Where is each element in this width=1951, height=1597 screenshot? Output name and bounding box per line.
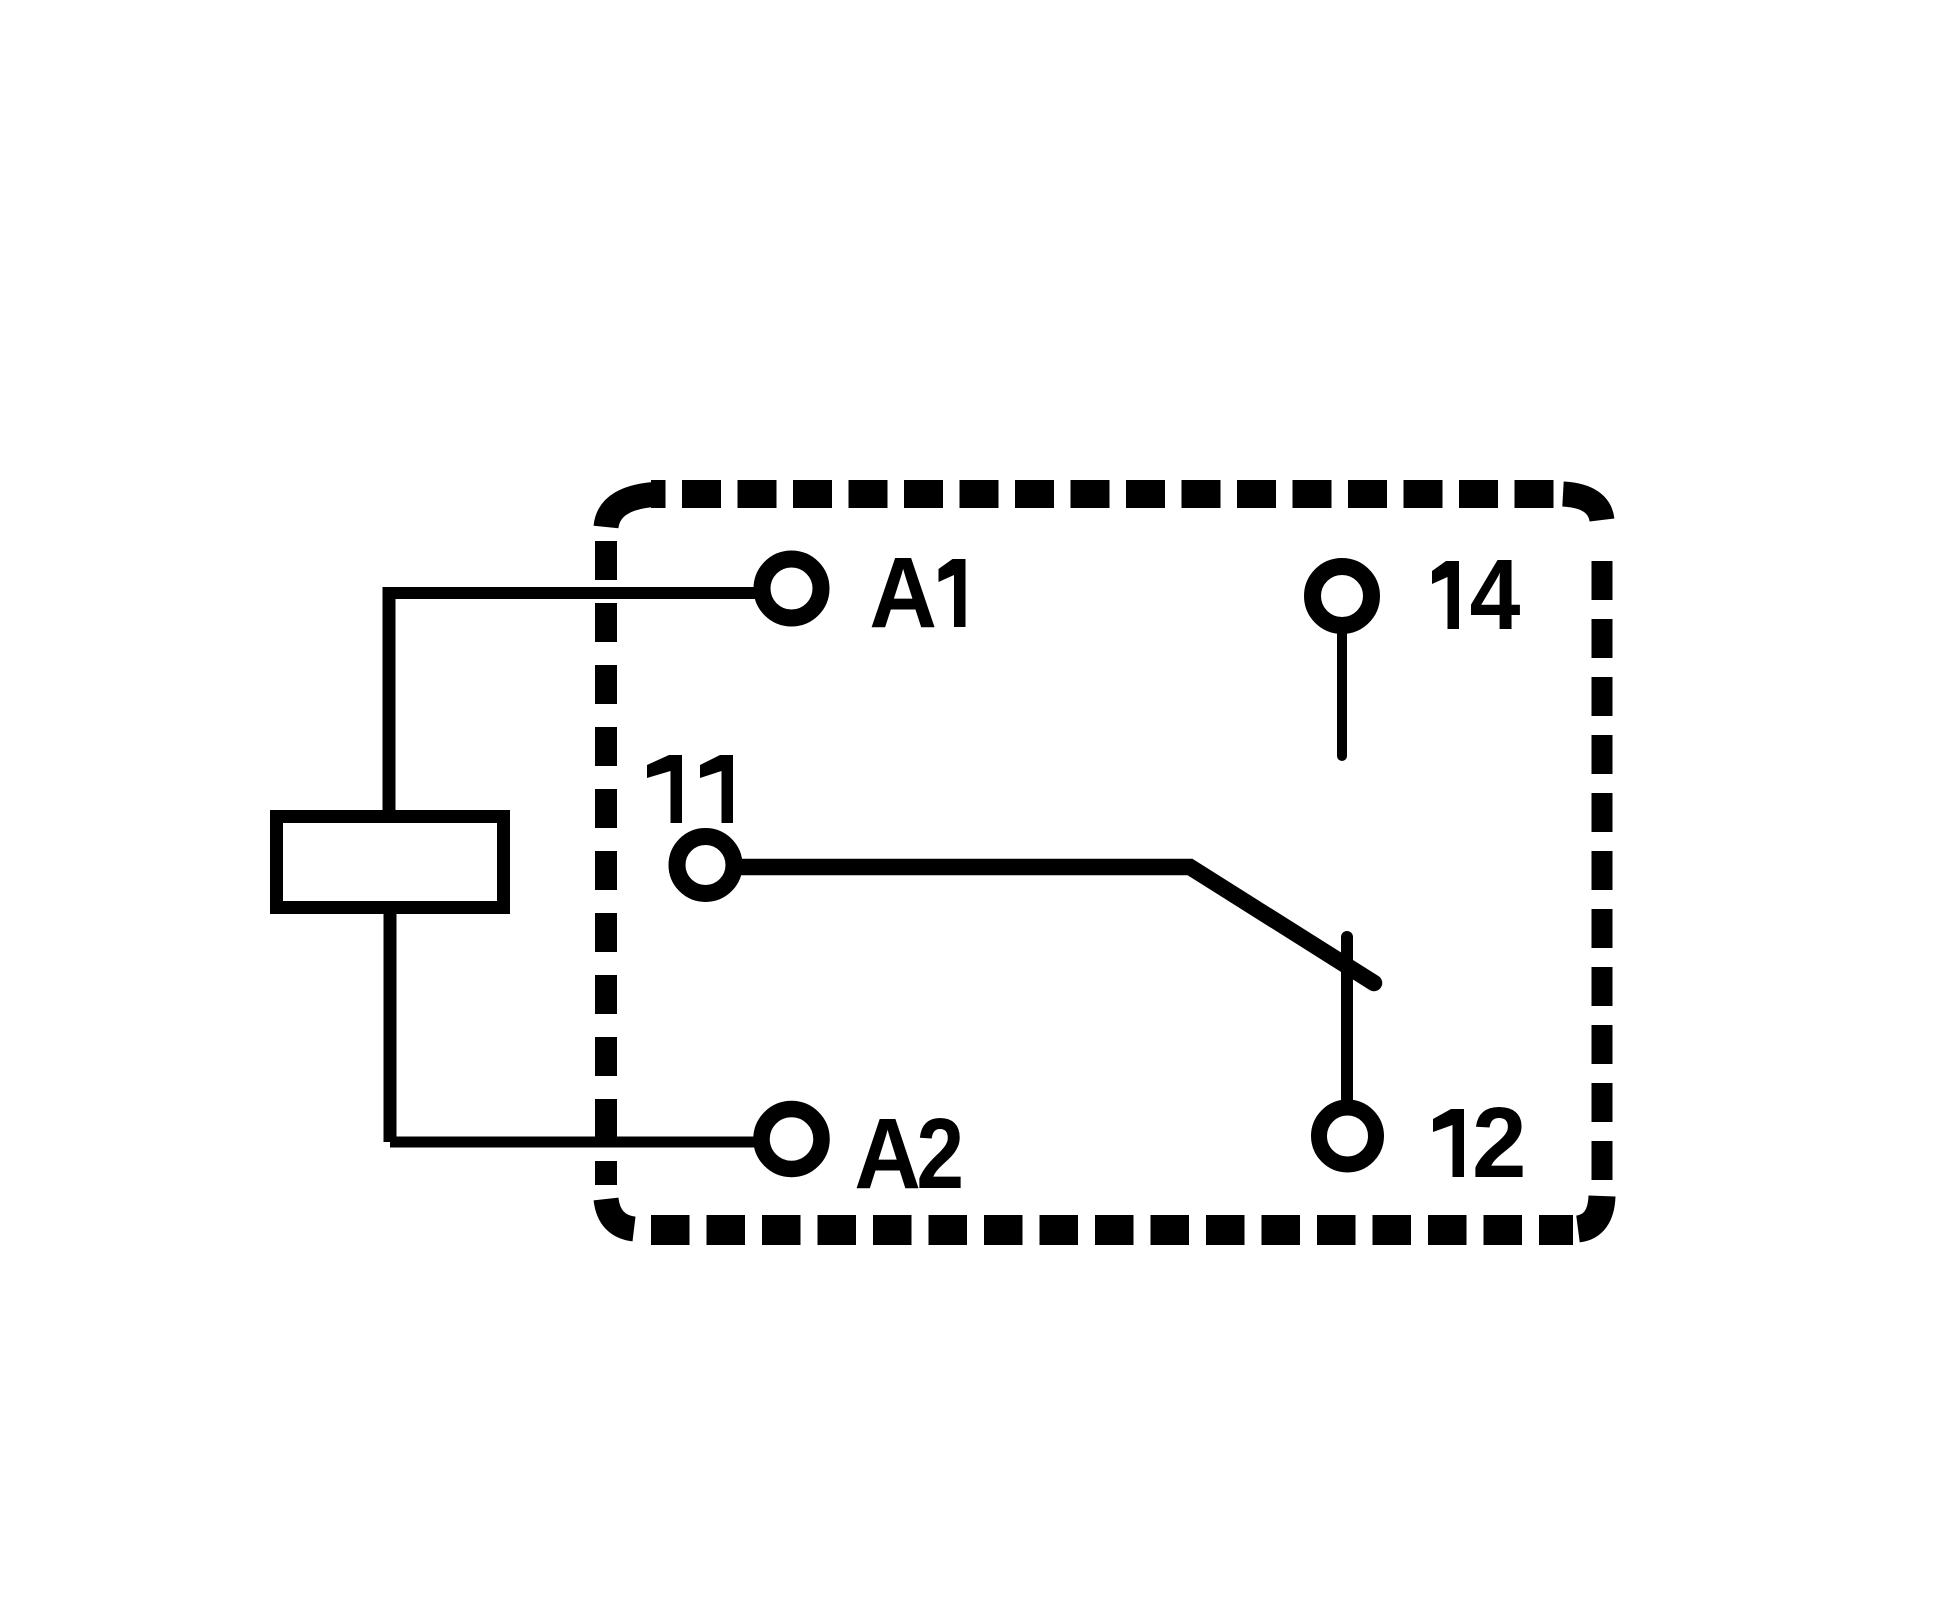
relay enclosure dashed outline: right side [1592,543,1613,1185]
relay enclosure outline: top-right corner arc [1563,494,1602,520]
terminal 12 (NC) [1319,1108,1376,1165]
svg-text:4: 4 [1470,539,1521,651]
wire: stub below terminal 14 (NO contact) [1337,629,1347,756]
terminal 14 (NO) [1313,567,1372,626]
terminal A1 (coil pin) [762,559,821,618]
svg-text:2: 2 [916,1098,964,1210]
wire: stub above terminal 12 (NC contact) [1341,937,1353,1100]
terminal 11 (common) [677,837,734,894]
wire: A1 horizontal lead [389,587,760,599]
coil K (relay coil rectangle) [277,817,504,908]
relay enclosure dashed outline: top side [651,480,1557,508]
pin label 11 [647,755,682,823]
wire: vertical from coil bottom down to A2 lead [384,910,397,1142]
relay enclosure outline: bottom-right corner arc [1578,1196,1602,1229]
terminal A2 (coil pin) [762,1109,822,1169]
pin label 12 [1433,1109,1464,1177]
wire: A2 horizontal lead [390,1137,760,1148]
svg-text:A: A [854,1098,921,1210]
relay enclosure dashed outline: left side [595,539,617,1185]
svg-text:2: 2 [1472,1087,1527,1199]
pin label 14 [1432,561,1459,629]
wire: vertical from A1 lead down to coil top [383,587,396,816]
relay enclosure outline: bottom-left corner arc [606,1199,634,1229]
svg-text:A: A [869,537,937,649]
switch blade: common contact 11 arm [742,867,1374,983]
relay enclosure dashed outline: bottom side [651,1215,1573,1245]
relay enclosure outline: top-left corner arc [606,494,661,527]
